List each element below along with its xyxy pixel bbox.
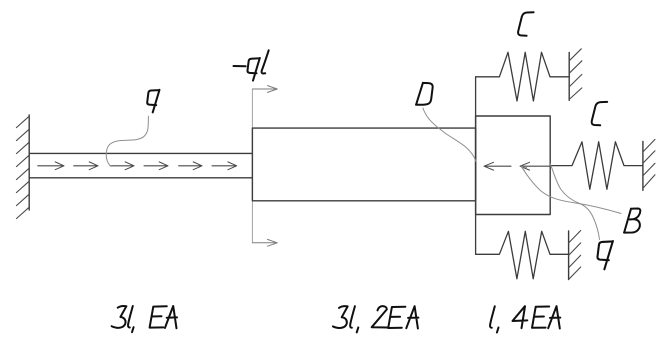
section cut line (251, 89, 253, 243)
right spring wall (642, 141, 644, 190)
dimension label 3l, EA (112, 306, 177, 332)
dimension label 3l, 2EA (333, 306, 419, 332)
label C (top) (518, 12, 534, 35)
block segment 3 (l, 4EA) (476, 116, 551, 215)
label -ql (234, 50, 269, 80)
bar segment 1 (3l, EA) (29, 152, 252, 154)
label C (right) (592, 102, 608, 125)
top spring C (476, 52, 570, 101)
arrow -ql top (252, 86, 277, 93)
bottom spring wall (568, 231, 570, 280)
distributed load q arrows in segment 1 (38, 162, 237, 170)
bottom spring (476, 231, 569, 278)
leader for q (right) (550, 164, 599, 240)
label D (416, 83, 433, 105)
spine line through block to springs (475, 77, 477, 255)
leader for D (423, 108, 476, 162)
arrow -ql bottom (252, 239, 277, 246)
load arrows inside block (484, 162, 550, 170)
right spring C (550, 142, 643, 190)
fixed wall left (28, 115, 30, 210)
label q (right) (597, 241, 612, 269)
leader for B (521, 167, 621, 214)
top spring wall (568, 53, 570, 101)
leader for q (left) (106, 116, 148, 166)
dimension label l, 4EA (490, 306, 560, 332)
label q (left) (147, 90, 159, 113)
label B (624, 209, 640, 233)
bar segment 2 (3l, 2EA) (252, 128, 475, 201)
